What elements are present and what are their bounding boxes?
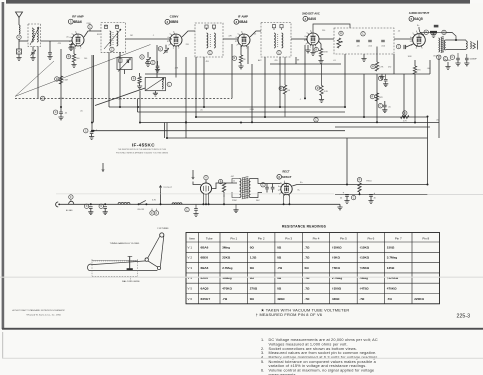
wire bbox=[232, 179, 240, 184]
scan line bbox=[56, 193, 334, 195]
plate decoupling network bbox=[417, 25, 456, 40]
svg-text:.05: .05 bbox=[388, 106, 391, 108]
footnote bbox=[256, 312, 322, 317]
svg-text:©Howard W. Sams & Co., Inc. 19: ©Howard W. Sams & Co., Inc. 1950 bbox=[26, 314, 62, 317]
dial scale bbox=[92, 260, 138, 261]
label V1 bbox=[68, 15, 83, 24]
wire bbox=[251, 64, 253, 123]
svg-text:Item: Item bbox=[189, 236, 195, 240]
page number 225-3 bbox=[457, 313, 471, 319]
wire bbox=[182, 31, 195, 37]
value label bbox=[206, 61, 209, 63]
wire bbox=[212, 183, 237, 189]
ground bbox=[455, 60, 460, 66]
bus wire bbox=[196, 116, 428, 118]
svg-text:5: 5 bbox=[307, 32, 308, 34]
capacitor C17 bbox=[53, 110, 68, 115]
padder capacitor C6 bbox=[117, 52, 132, 71]
svg-text:6.: 6. bbox=[261, 369, 264, 373]
svg-text:2ND DET-AVC: 2ND DET-AVC bbox=[302, 11, 320, 15]
svg-text:6BE6: 6BE6 bbox=[201, 256, 209, 260]
ground bbox=[319, 96, 324, 103]
wire bbox=[60, 49, 62, 111]
wire bbox=[84, 31, 101, 37]
svg-text:†475Ω: †475Ω bbox=[359, 287, 369, 291]
svg-text:220K: 220K bbox=[250, 109, 255, 111]
svg-text:†15KΩ: †15KΩ bbox=[359, 245, 369, 249]
switch SW1 bbox=[137, 200, 147, 210]
svg-text:V 2: V 2 bbox=[188, 256, 193, 260]
resistor R2 bbox=[131, 73, 141, 84]
resistor R14 bbox=[315, 64, 328, 96]
capacitor C8 bbox=[151, 60, 160, 72]
svg-text:C: C bbox=[362, 33, 364, 36]
trimmer capacitor C2 bbox=[30, 47, 35, 56]
bus wire bbox=[109, 106, 345, 108]
label V5 bbox=[409, 11, 430, 21]
svg-text:V 3: V 3 bbox=[188, 266, 193, 270]
value label bbox=[388, 67, 391, 69]
wire bbox=[166, 123, 168, 139]
svg-text:40: 40 bbox=[374, 197, 376, 199]
ground bbox=[145, 61, 150, 66]
svg-text:100: 100 bbox=[84, 58, 87, 60]
svg-text:4: 4 bbox=[410, 37, 411, 39]
capacitor C15 bbox=[465, 54, 478, 61]
svg-text:C: C bbox=[42, 97, 44, 100]
svg-text:C: C bbox=[278, 52, 280, 55]
tuning gang link bbox=[15, 45, 151, 97]
svg-text:IF AMP: IF AMP bbox=[238, 15, 248, 19]
svg-text:7: 7 bbox=[246, 48, 247, 50]
electrolytic capacitor C24 bbox=[351, 192, 375, 200]
speaker voice coil bbox=[466, 40, 477, 50]
svg-text:PHOTOFACT WHEN IT APPEARS TO A: PHOTOFACT WHEN IT APPEARS TO ASSIST YOU … bbox=[116, 151, 169, 154]
svg-text:C: C bbox=[262, 184, 264, 187]
value label bbox=[86, 23, 91, 25]
svg-text:CONV: CONV bbox=[170, 15, 179, 19]
wire bbox=[232, 192, 240, 198]
svg-text:5: 5 bbox=[170, 33, 171, 35]
svg-text:455: 455 bbox=[274, 60, 277, 62]
wire bbox=[363, 74, 365, 117]
svg-text:1M: 1M bbox=[297, 59, 300, 61]
wire bbox=[93, 55, 95, 123]
capacitor C25 bbox=[84, 204, 92, 212]
oscillator coil L2 bbox=[145, 78, 171, 91]
wire bbox=[223, 197, 225, 204]
vibrator VB1 bbox=[200, 175, 211, 194]
wire bbox=[344, 54, 346, 107]
value label bbox=[80, 111, 83, 113]
label 2 1/2 turns bbox=[157, 228, 169, 230]
svg-text:RF AMP: RF AMP bbox=[72, 15, 83, 19]
ground bbox=[47, 54, 52, 59]
svg-text:.02: .02 bbox=[398, 31, 401, 33]
wire bbox=[288, 194, 290, 204]
capacitor C12 bbox=[396, 44, 413, 49]
ground bbox=[238, 63, 243, 69]
wire bbox=[175, 46, 177, 78]
wire bbox=[202, 194, 204, 205]
page top edge shadow bbox=[6, 0, 470, 4]
svg-text:6BA6: 6BA6 bbox=[201, 245, 209, 249]
loop antenna coil L1 bbox=[19, 25, 20, 34]
value label bbox=[59, 98, 64, 100]
svg-text:R: R bbox=[317, 87, 319, 90]
wire bbox=[429, 60, 431, 74]
svg-text:6AQ5: 6AQ5 bbox=[201, 287, 209, 291]
spark plate capacitor bbox=[17, 49, 22, 54]
svg-text:0Ω: 0Ω bbox=[277, 245, 282, 249]
svg-text:0Ω: 0Ω bbox=[277, 256, 282, 260]
ground bbox=[305, 45, 310, 53]
ground bbox=[445, 67, 450, 70]
resistor R8 bbox=[55, 76, 68, 84]
value label bbox=[130, 35, 133, 37]
label tuning gang bbox=[110, 242, 140, 245]
svg-text:6AV6: 6AV6 bbox=[308, 17, 316, 21]
value label bbox=[408, 56, 412, 58]
trimmer capacitor C7 bbox=[140, 52, 151, 63]
wire bbox=[264, 57, 266, 117]
scan artifact line bbox=[0, 277, 483, 278]
svg-text:3: 3 bbox=[278, 190, 279, 192]
svg-text:1: 1 bbox=[173, 48, 174, 50]
wire bbox=[195, 57, 197, 117]
svg-text:470KΩ: 470KΩ bbox=[222, 287, 232, 291]
svg-text:C: C bbox=[141, 56, 143, 59]
table title bbox=[282, 225, 327, 229]
page left edge shadow bbox=[2, 2, 5, 329]
svg-text:6X5GT: 6X5GT bbox=[201, 297, 211, 301]
svg-text:6: 6 bbox=[75, 32, 76, 34]
ground bbox=[233, 204, 238, 212]
value label bbox=[58, 43, 62, 45]
bus wire bbox=[166, 137, 428, 139]
svg-text:10M: 10M bbox=[408, 56, 412, 58]
svg-text:C: C bbox=[85, 130, 87, 133]
resistor R5 bbox=[371, 47, 384, 72]
svg-text:0Ω: 0Ω bbox=[250, 266, 255, 270]
svg-text:AUDIO OUTPUT: AUDIO OUTPUT bbox=[409, 11, 430, 15]
svg-text:1M: 1M bbox=[130, 35, 133, 37]
svg-text:.7Ω: .7Ω bbox=[277, 266, 283, 270]
wire bbox=[312, 57, 314, 64]
footnote bbox=[261, 307, 350, 312]
wire bbox=[205, 180, 207, 183]
bus wire bbox=[145, 73, 430, 75]
wire bbox=[18, 39, 20, 49]
wire bbox=[291, 38, 307, 40]
capacitor C27 bbox=[185, 207, 189, 211]
svg-text:2.2M: 2.2M bbox=[63, 80, 68, 82]
svg-text:5: 5 bbox=[412, 33, 413, 35]
svg-text:2: 2 bbox=[236, 45, 237, 47]
value label bbox=[298, 190, 301, 192]
filter choke / field resistor R11 bbox=[357, 178, 361, 195]
capacitor C28 bbox=[193, 204, 198, 216]
AVC bus (dashed) bbox=[15, 97, 232, 99]
lower page left edge bbox=[2, 332, 3, 358]
svg-text:SEC: SEC bbox=[256, 200, 261, 202]
wire bbox=[160, 192, 162, 204]
svg-text:270Ω: 270Ω bbox=[250, 287, 258, 291]
resistor R1 bbox=[66, 46, 80, 62]
pilot lamp feed arrow bbox=[159, 186, 161, 192]
node bbox=[137, 106, 139, 108]
ground bbox=[137, 84, 142, 89]
value label bbox=[333, 60, 336, 62]
svg-text:1: 1 bbox=[75, 48, 76, 50]
svg-text:6BE6: 6BE6 bbox=[170, 20, 178, 24]
value label bbox=[175, 67, 179, 69]
svg-text:6BA6: 6BA6 bbox=[74, 20, 82, 24]
wire bbox=[231, 44, 233, 98]
capacitor C20 bbox=[84, 129, 97, 140]
value label bbox=[300, 99, 302, 101]
wire bbox=[290, 39, 292, 64]
label V2 bbox=[165, 15, 179, 25]
wire bbox=[95, 88, 145, 106]
wire bbox=[427, 117, 429, 185]
B+ wire bbox=[292, 182, 427, 186]
capacitor C19 bbox=[314, 118, 318, 122]
fuse F1 bbox=[66, 195, 74, 212]
svg-text:270: 270 bbox=[388, 67, 391, 69]
wire bbox=[223, 38, 238, 40]
antenna bbox=[16, 12, 23, 25]
svg-text:RESISTANCE READINGS: RESISTANCE READINGS bbox=[282, 225, 327, 229]
svg-text:Pin 6: Pin 6 bbox=[367, 236, 374, 240]
dial drive pulley bbox=[160, 233, 164, 237]
svg-text:40: 40 bbox=[340, 197, 342, 199]
svg-text:Pin 5: Pin 5 bbox=[340, 236, 347, 240]
svg-text:3: 3 bbox=[235, 41, 236, 43]
scan line bbox=[428, 193, 483, 195]
dial pointer bbox=[127, 256, 133, 270]
svg-text:R: R bbox=[56, 78, 58, 81]
idler pulley bbox=[157, 266, 160, 269]
capacitor C10 bbox=[208, 50, 212, 54]
ground bbox=[383, 84, 388, 87]
svg-text:5: 5 bbox=[238, 33, 239, 35]
label dial cord guide bbox=[122, 278, 140, 284]
wire bbox=[108, 52, 110, 107]
ground bbox=[103, 212, 108, 215]
wire bbox=[208, 194, 210, 205]
svg-text:3.7Meg: 3.7Meg bbox=[387, 256, 397, 260]
svg-text:.7Ω: .7Ω bbox=[305, 297, 311, 301]
svg-text:†15KΩ: †15KΩ bbox=[359, 256, 369, 260]
value label bbox=[200, 109, 203, 111]
svg-text:Pin 4: Pin 4 bbox=[313, 236, 320, 240]
svg-text:470K: 470K bbox=[323, 52, 328, 54]
capacitor C11 bbox=[277, 50, 281, 54]
svg-text:R: R bbox=[220, 181, 222, 184]
svg-text:R: R bbox=[372, 96, 374, 99]
battery plug bbox=[56, 202, 60, 207]
value label bbox=[228, 35, 232, 37]
value label bbox=[274, 60, 277, 62]
value label bbox=[97, 34, 101, 36]
svg-text:0Ω: 0Ω bbox=[250, 245, 255, 249]
wire bbox=[393, 54, 395, 74]
svg-text:.01: .01 bbox=[333, 60, 336, 62]
svg-text:3: 3 bbox=[69, 41, 70, 43]
capacitor C4 bbox=[69, 45, 73, 47]
svg-text:470KΩ: 470KΩ bbox=[387, 287, 397, 291]
wire bbox=[304, 45, 306, 98]
wire bbox=[288, 87, 318, 89]
svg-text:Tube: Tube bbox=[206, 236, 213, 240]
ground bbox=[30, 54, 35, 60]
label V3 bbox=[234, 15, 248, 25]
svg-text:6: 6 bbox=[310, 31, 311, 33]
wire bbox=[126, 38, 151, 40]
wire bbox=[414, 74, 416, 123]
ground bbox=[155, 68, 160, 72]
svg-text:C: C bbox=[55, 111, 57, 114]
wire bbox=[19, 40, 28, 42]
svg-text:220KΩ: 220KΩ bbox=[414, 297, 424, 301]
svg-text:6: 6 bbox=[241, 32, 242, 34]
value label bbox=[297, 59, 300, 61]
svg-text:A PHOTOFACT STANDARD NOTATION: A PHOTOFACT STANDARD NOTATION SCHEMATIC bbox=[12, 309, 65, 312]
resistor R3 bbox=[232, 46, 246, 63]
svg-text:R: R bbox=[315, 49, 317, 52]
wire bbox=[156, 45, 158, 78]
service notes bbox=[261, 338, 379, 375]
value label bbox=[118, 98, 122, 101]
svg-text:6X5GT: 6X5GT bbox=[282, 175, 292, 179]
svg-text:R: R bbox=[280, 87, 282, 90]
svg-text:.7Ω: .7Ω bbox=[359, 297, 365, 301]
svg-text:.007: .007 bbox=[230, 176, 234, 178]
dial cord loop bbox=[88, 261, 158, 271]
svg-text:4: 4 bbox=[235, 37, 236, 39]
svg-text:TUNING GANG FULLY CLOSED: TUNING GANG FULLY CLOSED bbox=[110, 242, 140, 245]
svg-text:AVC: AVC bbox=[258, 59, 262, 62]
photofact credit bbox=[12, 309, 65, 316]
value label bbox=[436, 120, 439, 122]
capacitor C13 bbox=[378, 75, 387, 84]
RF coil T2 bbox=[101, 23, 126, 53]
svg-text:FIELD: FIELD bbox=[366, 181, 372, 183]
resistance readings table bbox=[186, 233, 440, 304]
value label bbox=[322, 30, 325, 32]
tube V2 6BE6 converter bbox=[167, 32, 182, 50]
label IF-455KC bbox=[132, 142, 155, 147]
svg-text:.05: .05 bbox=[66, 37, 69, 39]
power transformer T6 bbox=[232, 176, 251, 201]
wire bbox=[335, 193, 428, 195]
resistor R6 bbox=[413, 60, 421, 74]
svg-text:250: 250 bbox=[322, 30, 325, 32]
wire bbox=[119, 52, 121, 107]
wire bbox=[283, 194, 285, 204]
capacitor on AVC bus bbox=[41, 96, 45, 100]
svg-text:6AQ5: 6AQ5 bbox=[414, 17, 423, 21]
svg-text:C: C bbox=[452, 56, 454, 59]
svg-text:A LEAD: A LEAD bbox=[66, 209, 73, 212]
capacitor C16 bbox=[443, 57, 448, 67]
tube V1 6BA6 RF amplifier bbox=[69, 32, 84, 50]
ground bbox=[88, 212, 93, 215]
svg-text:3: 3 bbox=[304, 40, 305, 42]
value label bbox=[256, 200, 261, 202]
svg-text:V 1: V 1 bbox=[188, 245, 193, 249]
svg-text:.7Ω: .7Ω bbox=[222, 297, 228, 301]
wire bbox=[363, 59, 365, 63]
buffer capacitor C21 bbox=[261, 183, 269, 193]
wire bbox=[185, 57, 187, 138]
svg-text:225-3: 225-3 bbox=[457, 313, 471, 319]
svg-text:2: 2 bbox=[168, 45, 169, 47]
svg-text:2.7Meg: 2.7Meg bbox=[222, 266, 232, 270]
svg-text:.05: .05 bbox=[254, 33, 257, 35]
wire bbox=[403, 74, 405, 117]
value label bbox=[84, 58, 87, 60]
svg-text:.05: .05 bbox=[80, 111, 83, 113]
bus wire bbox=[94, 130, 345, 132]
svg-text:C: C bbox=[443, 31, 445, 34]
svg-text:7: 7 bbox=[80, 48, 81, 50]
svg-text:R: R bbox=[340, 32, 342, 35]
capacitor C18 bbox=[378, 101, 390, 108]
resistor R4 bbox=[314, 42, 329, 57]
IF transformer T3 bbox=[195, 23, 223, 57]
value label bbox=[366, 181, 372, 183]
AVC takeoff wire bbox=[313, 24, 350, 33]
svg-text:ON-OFF: ON-OFF bbox=[137, 209, 145, 211]
value label bbox=[186, 44, 189, 46]
svg-text:R: R bbox=[404, 112, 406, 115]
svg-text:C: C bbox=[89, 26, 91, 29]
value label bbox=[152, 199, 157, 201]
wire bbox=[102, 163, 104, 172]
value label bbox=[254, 33, 257, 35]
ground bbox=[58, 114, 63, 120]
svg-text:C: C bbox=[86, 205, 88, 208]
svg-text:455: 455 bbox=[206, 61, 209, 63]
svg-text:†5KΩ: †5KΩ bbox=[332, 266, 341, 270]
svg-text:.006: .006 bbox=[427, 68, 431, 70]
buffer capacitor C22 bbox=[271, 184, 275, 193]
fuse holders bbox=[150, 209, 159, 216]
svg-text:1.2Ω: 1.2Ω bbox=[250, 256, 257, 260]
fine print bbox=[116, 148, 169, 154]
ground bbox=[310, 45, 315, 55]
svg-text:430Ω: 430Ω bbox=[332, 297, 340, 301]
ground bbox=[368, 197, 373, 204]
bus wire bbox=[270, 63, 341, 65]
svg-text:Pin 8: Pin 8 bbox=[422, 236, 429, 240]
wire bbox=[262, 183, 281, 185]
wire bbox=[446, 49, 466, 51]
svg-text:PRIM: PRIM bbox=[232, 200, 237, 202]
wire bbox=[438, 58, 440, 138]
svg-text:R: R bbox=[234, 57, 236, 60]
svg-text:.7Ω: .7Ω bbox=[305, 256, 311, 260]
svg-text:2: 2 bbox=[305, 44, 306, 46]
svg-text:C: C bbox=[353, 197, 355, 200]
electrolytic capacitor C23 bbox=[340, 191, 349, 199]
capacitor C1 bbox=[17, 35, 21, 39]
antenna coil T1 bbox=[28, 24, 41, 47]
svg-text:4: 4 bbox=[278, 186, 279, 188]
capacitor C26 bbox=[99, 204, 107, 212]
